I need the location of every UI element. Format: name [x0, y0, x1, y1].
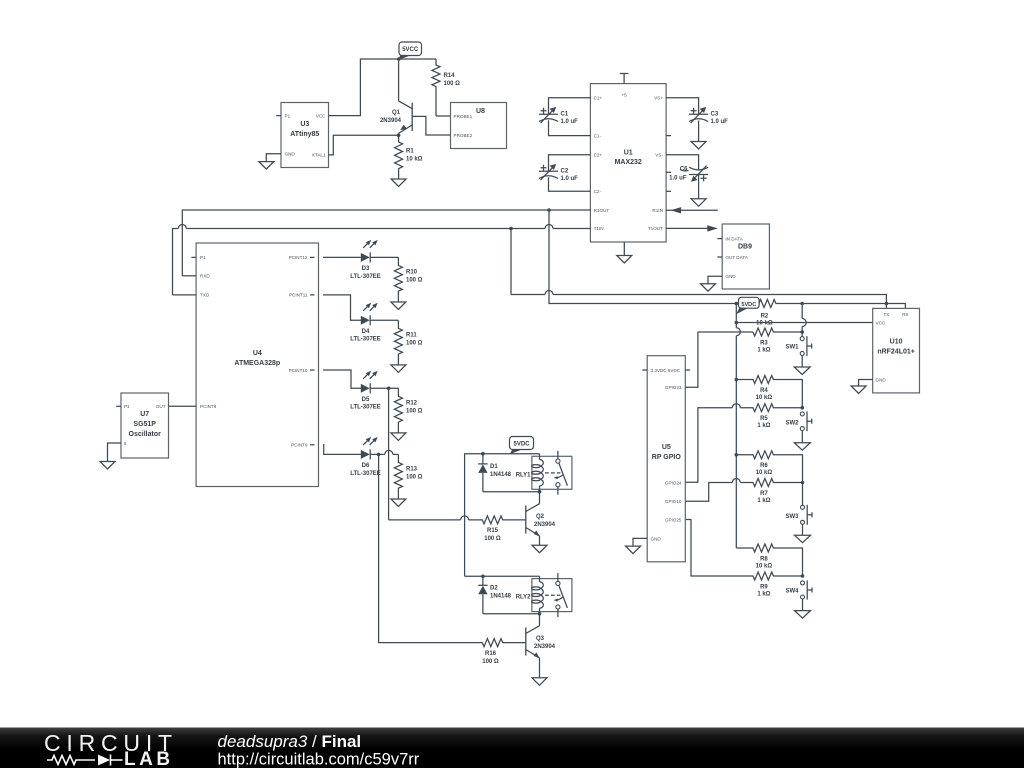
- svg-text:VS+: VS+: [654, 96, 663, 101]
- svg-text:100 Ω: 100 Ω: [406, 278, 423, 284]
- wire C3 to ground: [698, 121, 700, 142]
- node RLY1 coil bottom: [538, 490, 542, 494]
- svg-text:C2+: C2+: [594, 153, 603, 158]
- svg-text:P1: P1: [285, 113, 291, 118]
- wire D5 branch down to R15 row: [388, 388, 390, 520]
- node D5 branch: [387, 387, 391, 391]
- svg-text:3.3VDC 5VDC: 3.3VDC 5VDC: [651, 368, 681, 373]
- resistor R9 1k row from GPIO25: [685, 520, 802, 598]
- wire GPIO23 to R3: [685, 332, 698, 387]
- svg-text:100 Ω: 100 Ω: [484, 536, 501, 542]
- svg-text:GPIO10: GPIO10: [665, 499, 682, 504]
- svg-text:R4: R4: [760, 388, 768, 394]
- svg-text:RLY1: RLY1: [516, 473, 531, 479]
- svg-text:LTL-307EE: LTL-307EE: [350, 337, 381, 343]
- ground DB9: [701, 284, 716, 292]
- ground below R1: [391, 179, 406, 187]
- LED D4 LTL-307EE: [350, 303, 398, 343]
- svg-text:1.0 uF: 1.0 uF: [711, 119, 729, 125]
- svg-text:6: 6: [124, 441, 127, 446]
- svg-text:10 kΩ: 10 kΩ: [756, 395, 773, 401]
- ground U5: [626, 546, 641, 554]
- svg-text:D1: D1: [490, 464, 498, 470]
- power flag 5VDC (relays): [510, 437, 534, 455]
- wire U3 GND to ground: [266, 154, 281, 162]
- svg-text:T1OUT: T1OUT: [648, 226, 663, 231]
- svg-text:PCINT12: PCINT12: [289, 255, 308, 260]
- pin U7 P1 stub: [116, 405, 121, 407]
- LED D6 LTL-307EE: [350, 437, 398, 477]
- svg-text:VCC: VCC: [316, 113, 326, 118]
- chip U3 ATtiny85: [281, 103, 329, 168]
- resistor R15 100ohm: [389, 516, 526, 542]
- svg-text:RX: RX: [902, 312, 908, 317]
- wire 5VCC rail to R14: [399, 58, 436, 60]
- wire B: TXD to T1IN: [173, 225, 591, 295]
- resistor R4 10k: [736, 376, 802, 408]
- svg-text:R6: R6: [760, 463, 768, 469]
- resistor R6 10k: [736, 451, 802, 483]
- svg-text:U5: U5: [662, 444, 671, 451]
- svg-text:C3: C3: [711, 112, 719, 118]
- wire RLY1 top rail: [465, 454, 540, 577]
- svg-text:R9: R9: [760, 584, 768, 590]
- svg-text:R16: R16: [485, 651, 497, 657]
- svg-text:RP GPIO: RP GPIO: [652, 454, 682, 461]
- node R3 SW1 junction: [800, 330, 804, 334]
- switch SW2: [785, 411, 811, 442]
- svg-text:PCINT11: PCINT11: [289, 293, 308, 298]
- svg-text:Q2: Q2: [536, 514, 545, 520]
- wire RLY2 top rail: [465, 575, 540, 577]
- wire C1- loop: [549, 120, 591, 135]
- resistor R2 10k (pullup on wire2): [756, 300, 776, 327]
- resistor R14 100ohm: [432, 59, 460, 116]
- svg-text:100 Ω: 100 Ω: [482, 659, 499, 665]
- node D2 top: [481, 575, 485, 579]
- svg-text:LAB: LAB: [124, 749, 174, 768]
- node R2 SW1 junction: [800, 302, 804, 306]
- resistor R12 100ohm: [394, 388, 422, 433]
- resistor R10 100ohm: [394, 257, 422, 302]
- wire T1IN branch down to serial wire1: [510, 229, 512, 295]
- svg-text:C1-: C1-: [594, 133, 602, 138]
- svg-text:RXD: RXD: [200, 274, 210, 279]
- wire R1IN with arrow: [666, 209, 718, 211]
- svg-text:R14: R14: [444, 73, 456, 79]
- wire R1OUT branch down to wire2: [549, 210, 553, 304]
- svg-text:PCINT10: PCINT10: [289, 368, 308, 373]
- svg-text:nRF24L01+: nRF24L01+: [877, 349, 915, 356]
- svg-text:R12: R12: [406, 400, 418, 406]
- svg-text:1N4148: 1N4148: [490, 594, 512, 600]
- svg-text:R10: R10: [406, 270, 418, 276]
- svg-text:T1IN: T1IN: [594, 226, 604, 231]
- switch SW4: [785, 580, 812, 610]
- wire D6 branch down to R16 row: [379, 454, 483, 642]
- svg-text:PCINT9: PCINT9: [291, 443, 308, 448]
- svg-text:SG51P: SG51P: [133, 421, 156, 428]
- ground SW3: [795, 535, 811, 543]
- svg-text:LTL-307EE: LTL-307EE: [350, 471, 381, 477]
- svg-text:D6: D6: [362, 463, 370, 469]
- wire T1OUT with arrow: [666, 227, 711, 229]
- svg-text:1 kΩ: 1 kΩ: [757, 347, 770, 353]
- ground SW2: [794, 443, 810, 451]
- diode D1 1N4148: [478, 454, 511, 492]
- svg-text:R13: R13: [406, 467, 418, 473]
- wire RLY1 bottom rail: [483, 491, 540, 493]
- svg-text:DB9: DB9: [738, 244, 752, 251]
- svg-text:Q1: Q1: [392, 110, 401, 116]
- svg-text:SW1: SW1: [785, 345, 799, 351]
- svg-text:R5: R5: [760, 416, 768, 422]
- resistor R3 1k: [753, 328, 802, 353]
- svg-text:GND: GND: [285, 152, 296, 157]
- svg-text:+5: +5: [621, 93, 627, 98]
- svg-text:D2: D2: [490, 586, 498, 592]
- svg-text:1.0 uF: 1.0 uF: [669, 176, 687, 182]
- transistor Q2 2N3904: [526, 492, 556, 545]
- svg-text:VS-: VS-: [655, 153, 663, 158]
- resistor R1 10k: [395, 135, 423, 179]
- svg-text:2N3904: 2N3904: [534, 522, 556, 528]
- transistor Q3 2N3904: [526, 614, 556, 678]
- node R9 SW4 junction: [801, 574, 805, 578]
- svg-text:5VCC: 5VCC: [402, 47, 419, 53]
- resistor R11 100ohm: [394, 320, 422, 365]
- connector DB9: [722, 224, 769, 289]
- svg-text:1 kΩ: 1 kΩ: [757, 498, 770, 504]
- svg-text:U3: U3: [300, 121, 309, 128]
- wire PCINT11 to D4: [323, 295, 361, 320]
- svg-text:Oscillator: Oscillator: [129, 431, 162, 438]
- svg-text:PROBE2: PROBE2: [454, 133, 473, 138]
- chip U5 RP GPIO: [647, 356, 685, 562]
- svg-text:P1: P1: [124, 404, 130, 409]
- node Q1 emitter junction: [397, 133, 401, 137]
- wire U5 GND to ground: [633, 538, 647, 546]
- svg-text:LTL-307EE: LTL-307EE: [350, 274, 381, 280]
- svg-text:GPIO25: GPIO25: [665, 518, 682, 523]
- capacitor C1 1.0uF: [539, 107, 578, 125]
- svg-text:1N4148: 1N4148: [490, 472, 512, 478]
- pin P1 stub U4: [191, 256, 196, 258]
- pin 3.3VDC stub: [642, 369, 647, 371]
- wire C6 to ground: [698, 175, 700, 199]
- ground R11: [391, 365, 406, 373]
- pin P1 stub (unconnected): [276, 115, 281, 117]
- wire RLY2 bottom rail: [483, 613, 540, 615]
- wire PCINT9 to D6: [323, 445, 361, 455]
- node D1 top: [481, 452, 485, 456]
- svg-text:R15: R15: [487, 528, 499, 534]
- capacitor C2 1.0uF: [539, 164, 578, 182]
- svg-text:2N3904: 2N3904: [534, 644, 556, 650]
- svg-text:R7: R7: [760, 491, 768, 497]
- ground SW4: [795, 611, 811, 619]
- node 5VDC junction on wire2: [735, 302, 739, 306]
- svg-text:GND: GND: [876, 378, 887, 383]
- resistor R5 1k row from GPIO24: [685, 404, 802, 483]
- wire1 serial to U10 TX: [511, 291, 886, 309]
- svg-text:TX: TX: [883, 312, 889, 317]
- wire SW1 vertical with hop over VCC wire: [802, 304, 806, 337]
- svg-text:R2: R2: [761, 313, 769, 319]
- svg-text:10 kΩ: 10 kΩ: [756, 470, 773, 476]
- svg-text:XTAL1: XTAL1: [312, 152, 326, 157]
- wire U1 bottom to ground: [623, 242, 625, 256]
- svg-text:10 kΩ: 10 kΩ: [756, 563, 773, 569]
- node 5VCC junction: [397, 57, 401, 61]
- svg-text:C1: C1: [561, 112, 569, 118]
- svg-text:TXD: TXD: [200, 293, 210, 298]
- svg-text:GND: GND: [725, 274, 736, 279]
- svg-text:D5: D5: [362, 397, 370, 403]
- svg-text:R8: R8: [760, 556, 768, 562]
- ground U7: [100, 462, 115, 470]
- svg-text:100 Ω: 100 Ω: [406, 408, 423, 414]
- svg-text:RLY2: RLY2: [516, 595, 531, 601]
- diode D2 1N4148: [478, 576, 511, 614]
- oscillator U7 SG51P: [121, 393, 169, 458]
- svg-text:VCC: VCC: [876, 321, 886, 326]
- LED D5 LTL-307EE: [350, 371, 398, 411]
- switch SW3: [785, 483, 812, 536]
- svg-text:SW4: SW4: [785, 589, 799, 595]
- svg-text:SW2: SW2: [785, 420, 799, 426]
- svg-text:1 kΩ: 1 kΩ: [757, 591, 770, 597]
- resistor R8 10k: [736, 544, 802, 576]
- svg-text:Q3: Q3: [536, 636, 545, 642]
- svg-text:GPIO24: GPIO24: [665, 480, 682, 485]
- node rail R4 junction: [735, 378, 739, 382]
- node TX crossing blob: [885, 302, 889, 306]
- svg-text:R1: R1: [406, 149, 414, 155]
- svg-text:U1: U1: [624, 150, 633, 157]
- ground U10: [851, 386, 866, 394]
- ground Q3: [532, 678, 547, 686]
- wire DB9 GND to ground: [708, 276, 722, 283]
- wire U10 GND to ground: [859, 380, 873, 387]
- pin 5VDC stub: [685, 369, 690, 371]
- svg-text:U8: U8: [476, 108, 485, 115]
- svg-text:100 Ω: 100 Ω: [406, 475, 423, 481]
- wire U7 pin6 to ground: [108, 443, 122, 462]
- node D6 branch: [377, 453, 381, 457]
- svg-text:SW3: SW3: [785, 514, 799, 520]
- svg-text:GPIO23: GPIO23: [665, 385, 682, 390]
- transistor Q1 2N3904 (mirrored NPN): [380, 59, 412, 135]
- svg-text:C1+: C1+: [594, 96, 603, 101]
- resistor R7 1k row from GPIO10: [685, 479, 802, 504]
- svg-text:OUT DATA: OUT DATA: [725, 255, 748, 260]
- ground C3: [691, 142, 706, 150]
- wire2 serial to R2 and U10 RX: [553, 303, 758, 305]
- svg-text:5VDC: 5VDC: [741, 302, 756, 308]
- capacitor C6 1.0uF (rotated): [669, 166, 708, 182]
- wire emitter junction to U3 XTAL1: [329, 135, 399, 155]
- wire R3 row from GPIO23: [698, 331, 753, 333]
- svg-text:MAX232: MAX232: [615, 159, 642, 166]
- svg-text:1 kΩ: 1 kΩ: [757, 423, 770, 429]
- wire VS+ to C3: [666, 98, 699, 114]
- wire 5VDC rail vertical: [736, 304, 740, 549]
- ground SW1: [794, 367, 810, 375]
- unused right pin ticks: [666, 135, 671, 137]
- wire Q1 base to U8 PROBE2: [412, 116, 450, 135]
- wire PCINT10 to D5: [323, 370, 361, 388]
- svg-text:GND: GND: [651, 536, 662, 541]
- chip U8 probes: [451, 103, 507, 149]
- svg-text:10 kΩ: 10 kΩ: [756, 320, 773, 326]
- svg-text:U4: U4: [253, 350, 262, 357]
- wire A: RXD to R1OUT: [182, 210, 590, 276]
- wire VCC to U10: [736, 322, 872, 324]
- svg-text:R1OUT: R1OUT: [594, 208, 610, 213]
- ground R10: [391, 302, 406, 310]
- svg-text:P1: P1: [200, 255, 206, 260]
- svg-text:PCINT6: PCINT6: [200, 404, 217, 409]
- wire C1+ loop: [549, 98, 591, 114]
- ground C6: [691, 199, 706, 207]
- ground R12: [391, 433, 406, 441]
- pin inner dashes U4 right: [310, 256, 315, 258]
- wire U3 VCC to 5VCC rail: [329, 59, 399, 116]
- svg-text:R3: R3: [760, 340, 768, 346]
- wire C2+ loop: [549, 155, 591, 171]
- chip U1 MAX232: [590, 84, 666, 242]
- power flag 5VCC: [398, 42, 422, 60]
- svg-text:100 Ω: 100 Ω: [406, 340, 423, 346]
- svg-text:1.0 uF: 1.0 uF: [561, 176, 579, 182]
- wire VS- to C6: [666, 155, 699, 171]
- svg-text:2N3904: 2N3904: [380, 118, 402, 124]
- svg-text:1.0 uF: 1.0 uF: [561, 119, 579, 125]
- node R7 SW3 junction: [801, 481, 805, 485]
- svg-text:R1IN: R1IN: [652, 208, 662, 213]
- relay RLY2: [516, 573, 572, 617]
- node T1IN branch: [509, 227, 513, 231]
- svg-text:C2: C2: [561, 169, 569, 175]
- wire R14 to U8 PROBE1: [436, 115, 451, 117]
- svg-text:http://circuitlab.com/c59v7rr: http://circuitlab.com/c59v7rr: [218, 751, 420, 768]
- node RLY2 coil bottom: [538, 612, 542, 616]
- svg-text:U10: U10: [890, 339, 903, 346]
- svg-text:OUT: OUT: [156, 404, 166, 409]
- node rail VCC junction: [735, 321, 739, 325]
- chip U10 nRF24L01+: [873, 308, 920, 393]
- ground U1: [617, 256, 632, 264]
- svg-text:deadsupra3 / Final: deadsupra3 / Final: [218, 732, 362, 751]
- svg-text:LTL-307EE: LTL-307EE: [350, 405, 381, 411]
- svg-text:10 kΩ: 10 kΩ: [406, 157, 423, 163]
- ground U3: [259, 162, 274, 170]
- pin OUT DATA stub: [717, 256, 722, 258]
- pin IN DATA stub: [717, 238, 722, 240]
- pin +5 stub with tick: [623, 74, 625, 84]
- wire U7 OUT to U4 PCINT6: [169, 405, 197, 407]
- power flag 5VDC (pullups): [736, 297, 759, 314]
- node rail R6 junction: [735, 453, 739, 457]
- chip U4 ATMEGA328p: [196, 243, 318, 487]
- relay RLY1: [516, 451, 572, 495]
- svg-text:U7: U7: [140, 411, 149, 418]
- svg-text:D3: D3: [362, 266, 370, 272]
- svg-text:R11: R11: [406, 332, 417, 338]
- switch SW1: [785, 336, 811, 367]
- svg-text:100 Ω: 100 Ω: [444, 81, 461, 87]
- capacitor C3 1.0uF: [689, 107, 728, 125]
- resistor R16 100ohm: [482, 639, 526, 665]
- svg-text:IN DATA: IN DATA: [725, 236, 743, 241]
- svg-text:PROBE1: PROBE1: [454, 114, 473, 119]
- svg-text:D4: D4: [362, 329, 370, 335]
- node R1OUT branch: [547, 208, 551, 212]
- node R5 SW2 junction: [801, 406, 805, 410]
- svg-text:5VDC: 5VDC: [513, 442, 530, 448]
- LED D3 LTL-307EE: [323, 240, 398, 280]
- ground Q2: [532, 545, 547, 553]
- svg-text:ATtiny85: ATtiny85: [290, 131, 319, 138]
- resistor R13 100ohm: [394, 454, 422, 499]
- wire C2- loop: [549, 177, 591, 191]
- ground R13: [391, 499, 406, 507]
- svg-text:ATMEGA328p: ATMEGA328p: [234, 360, 280, 367]
- svg-text:C2-: C2-: [594, 189, 602, 194]
